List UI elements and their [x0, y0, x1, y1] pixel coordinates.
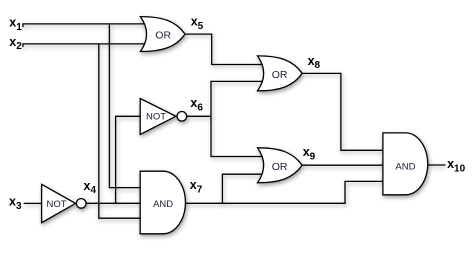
not-gate U2 bubble [177, 112, 187, 122]
svg-text:AND: AND [153, 199, 173, 210]
svg-text:x3: x3 [9, 195, 22, 212]
or-gate U1 (output x5) [140, 17, 185, 52]
svg-text:x2: x2 [9, 35, 22, 52]
svg-text:NOT: NOT [146, 112, 166, 123]
wire x2 horizontal [23, 44, 145, 47]
svg-text:NOT: NOT [47, 199, 67, 210]
and-gate U4 (output x7) [140, 171, 185, 234]
svg-text:x9: x9 [303, 145, 316, 162]
wire node x4 to AND U4 middle input [86, 202, 140, 204]
wire node x5 to OR U5 top input [185, 34, 263, 64]
and-gate U7 (output x10) [383, 133, 428, 195]
wire x1 horizontal [23, 24, 145, 27]
wire node x4 riser to NOT U2 input [116, 116, 141, 203]
or-gate U6 (output x9) [258, 148, 303, 183]
svg-text:OR: OR [155, 30, 171, 42]
svg-text:x7: x7 [190, 178, 203, 195]
svg-text:AND: AND [395, 161, 415, 172]
wire node x10 output [428, 164, 446, 166]
svg-text:OR: OR [272, 161, 288, 173]
or-gate U5 (output x8) [258, 56, 303, 91]
wire x2 tap vertical to AND U4 bottom input [99, 44, 140, 218]
wire node x9 to AND U7 middle input [302, 164, 383, 166]
svg-text:x5: x5 [191, 14, 204, 31]
wire node x7 branch to OR U6 bottom input [222, 174, 262, 203]
not-gate U2 triangle (output x6) [140, 99, 176, 135]
wire node x8 to AND U7 top input [302, 73, 383, 150]
wire node x7 to AND U7 bottom input [185, 181, 383, 203]
svg-text:OR: OR [272, 69, 288, 81]
wire node x6 from NOT U2 output [187, 115, 211, 117]
svg-text:x1: x1 [9, 15, 22, 32]
wire x1 tap vertical to AND U4 top input [109, 24, 140, 188]
wire node x6 branch to OR U5 bottom input [211, 81, 263, 116]
svg-text:x4: x4 [84, 179, 97, 196]
svg-text:x10: x10 [447, 157, 466, 174]
not-gate U3 bubble [76, 199, 86, 209]
wire x3 input [24, 202, 42, 204]
svg-text:x8: x8 [308, 54, 321, 71]
svg-text:x6: x6 [190, 96, 203, 113]
wire node x6 branch to OR U6 top input [211, 116, 263, 156]
not-gate U3 triangle (output x4) [42, 184, 76, 222]
